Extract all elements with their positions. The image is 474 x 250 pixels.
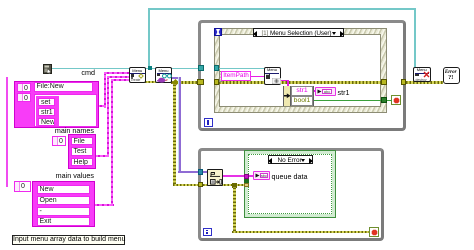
wire: error branch down to stop terminal	[233, 187, 236, 231]
loop2 stop terminal	[369, 227, 379, 237]
loop1 iteration terminal i	[204, 118, 213, 127]
wire: error to Destroy Menu and error handler	[406, 81, 443, 84]
wire: error horizontal into loop2	[173, 184, 198, 187]
node: error wire junction diamond	[171, 79, 178, 86]
index box 0 (outer array)	[17, 83, 31, 92]
wire: str1 to indicator	[313, 90, 316, 92]
ItemPath string terminal	[221, 71, 251, 82]
string File	[71, 137, 94, 146]
string set	[38, 98, 55, 107]
wire: error cluster VI2 to loop1 tunnel	[171, 81, 198, 84]
Simple Error Handler VI	[443, 67, 460, 84]
wire: error between loop1 and event border	[203, 81, 214, 84]
cluster interior	[34, 94, 97, 127]
event structure border	[214, 28, 387, 113]
tunnel: error on case left border	[244, 183, 249, 187]
case structure (No Error)	[244, 150, 336, 218]
ItemPath event data node	[219, 71, 223, 82]
tunnel: string on case left border	[244, 174, 249, 180]
wire: error event right border to loop1 border	[386, 81, 402, 84]
wire: cyan branch up to top rail	[148, 8, 150, 68]
comment: Input menu array data to build menu	[12, 235, 125, 245]
wire: string out of VI3 down into bundle	[281, 80, 289, 82]
wire: purple tunnel to dequeue VI	[203, 171, 208, 174]
string Open	[37, 196, 90, 205]
wire: string array C (main values) to Create Menu	[94, 204, 114, 206]
tunnel: error on event right border	[381, 79, 387, 85]
tunnel: cyan on loop1 left border	[198, 65, 204, 71]
wire: error bottom run to loop2 stop terminal	[232, 231, 369, 234]
while loop 2 (consumer loop)	[198, 148, 384, 242]
wire: string from dequeue to case tunnel	[223, 175, 245, 177]
wire: stray magenta wire at left edge	[6, 77, 8, 187]
wire: string array A (cmd cluster) to Create Menu	[97, 105, 106, 107]
array constant cmd (array of cluster of string + string array)	[14, 81, 99, 129]
wire: purple into loop2 tunnel	[178, 171, 199, 174]
wire: menubar refnum (cyan) horizontal from menubar icon into loop 1	[52, 68, 264, 70]
string Test	[71, 147, 94, 156]
tunnel: error on loop1 right border	[401, 79, 407, 85]
label main names	[44, 127, 94, 135]
VI2: Menu to Queue (Menu banner, glasses, purple blob)	[155, 67, 172, 83]
loop1 stop terminal	[391, 95, 401, 105]
string str1	[38, 108, 55, 117]
Destroy Menu VI	[413, 67, 431, 83]
queue data string indicator terminal	[253, 171, 270, 180]
wire: cyan drop to Destroy Menu VI	[414, 8, 416, 67]
event timeout terminal	[214, 28, 222, 36]
bundle node str1/bool1	[283, 86, 314, 107]
tunnel: boolean on event right border	[381, 97, 387, 103]
string -	[37, 207, 90, 216]
case selector terminal (green)	[244, 179, 249, 183]
tunnel: error on event left border	[214, 79, 220, 85]
element bool1	[291, 96, 313, 106]
label cmd	[60, 69, 95, 77]
wire: bool1 to event tunnel (thin green)	[314, 100, 382, 101]
tunnel: error on loop1 left border	[197, 79, 204, 86]
string New	[38, 118, 55, 127]
index box 0 (inner array)	[17, 93, 31, 102]
loop2 iteration terminal i	[203, 228, 212, 237]
string New	[37, 185, 90, 194]
tunnel: error on loop2 left border	[198, 182, 204, 188]
wire: error from loop2 tunnel to dequeue and case	[203, 184, 245, 187]
Dequeue Element VI	[207, 169, 223, 186]
wire: queue refnum (purple) out of VI2	[171, 77, 181, 80]
label main values	[44, 172, 94, 180]
array constant main values	[14, 181, 31, 192]
wire: error cluster VI1 to VI2 (olive dotted)	[145, 81, 156, 84]
wire: string from case tunnel to queue data indicator	[249, 175, 254, 177]
string Help	[71, 158, 94, 167]
VI3: Get Menu Item Info (inside event)	[264, 67, 281, 85]
string File:New	[34, 82, 93, 92]
wire: error across event structure interior	[219, 81, 381, 84]
case selector label	[268, 155, 313, 164]
element str1	[291, 86, 313, 96]
event selector label	[253, 28, 345, 37]
wire: error to dequeue and onward	[203, 184, 245, 187]
wire: ItemPath string to Get Menu Item Info	[251, 76, 264, 78]
inner string array shell	[36, 96, 59, 127]
label queue data	[272, 173, 308, 181]
tunnel: queue refnum on loop2 left border	[198, 169, 204, 175]
wire: green tunnel to loop stop	[387, 100, 392, 101]
tunnel: cyan on event left border	[214, 65, 220, 71]
node: error junction dot below case	[232, 183, 237, 188]
wire: cyan top rail	[148, 8, 416, 10]
str1 string indicator terminal	[315, 87, 336, 96]
VI1: Create Menu (Menu banner, list + sparkle, 'create')	[129, 67, 147, 83]
wire: error branch down to consumer loop	[173, 84, 176, 184]
while loop 1 (producer / event loop)	[198, 20, 406, 131]
wire: purple queue refnum tunnel to dequeue	[203, 171, 208, 174]
Current VI's Menubar icon	[43, 64, 52, 74]
wire: purple vertical down to loop2	[178, 77, 179, 174]
label str1	[338, 89, 350, 97]
array constant main names	[52, 136, 66, 146]
string Exit	[37, 217, 90, 226]
node: cyan wire junction	[148, 66, 152, 70]
re-draw wires inside event structure (over white)	[219, 68, 264, 70]
wire: string array B (main names) to Create Menu	[95, 155, 109, 157]
